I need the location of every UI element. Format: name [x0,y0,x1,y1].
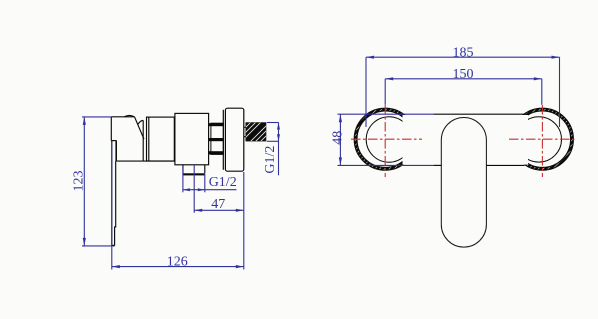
svg-text:G1/2: G1/2 [209,175,237,190]
svg-text:G1/2: G1/2 [263,146,278,174]
svg-text:150: 150 [453,67,474,82]
svg-text:123: 123 [72,171,87,192]
svg-text:126: 126 [167,255,188,270]
svg-text:48: 48 [331,131,346,145]
svg-text:47: 47 [211,197,225,212]
svg-text:185: 185 [453,46,474,61]
